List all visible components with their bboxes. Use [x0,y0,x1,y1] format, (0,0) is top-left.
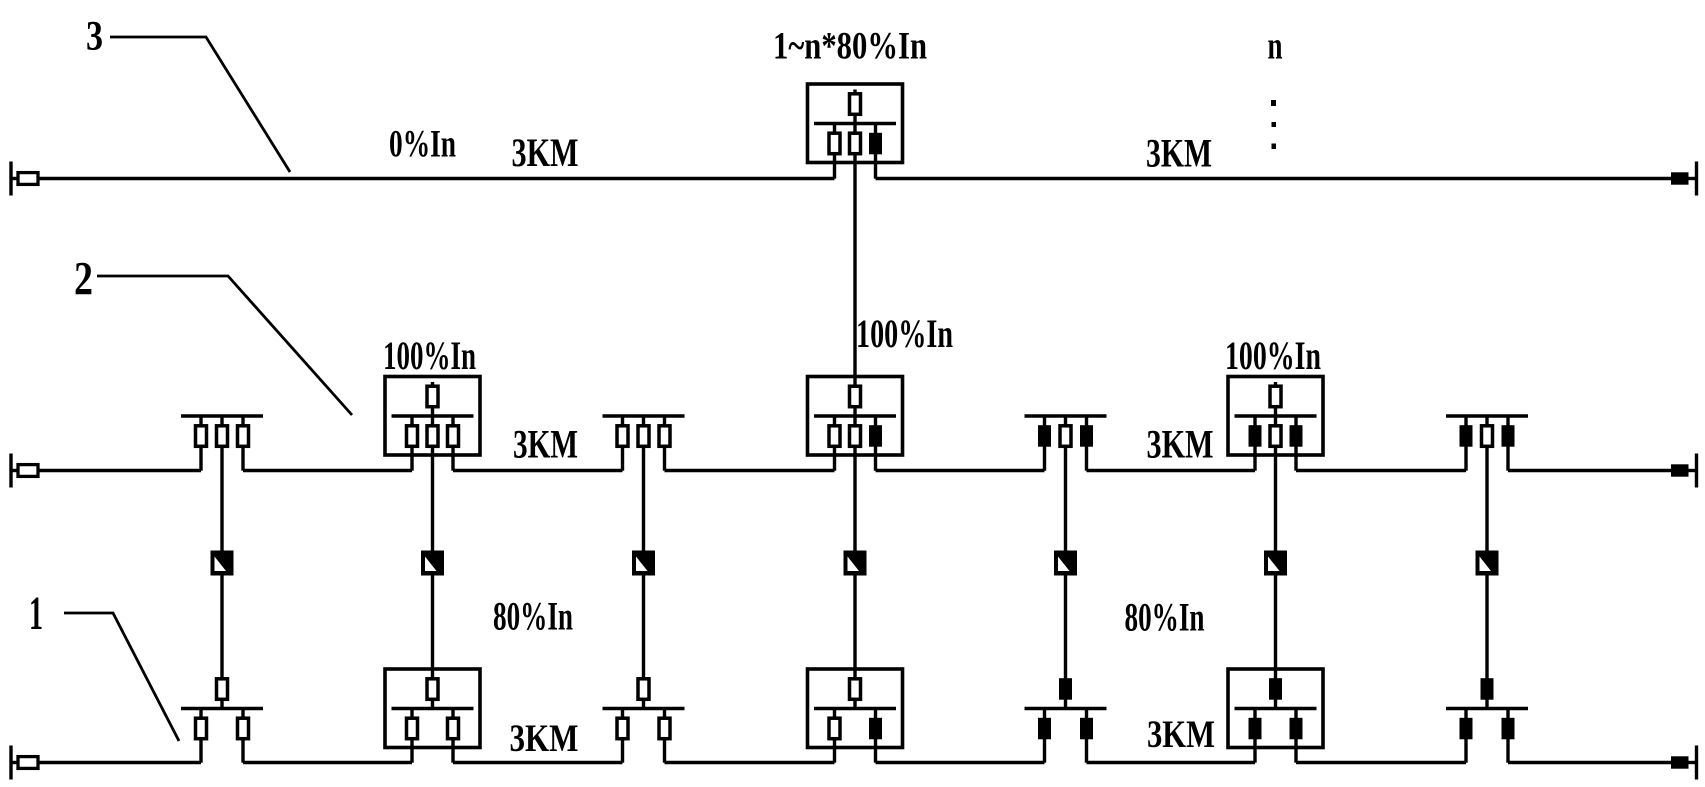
wire: line-1 unit C6 left leg upper [1253,709,1256,719]
wire: tap unit C7 (line 2) right leg to bus [1506,446,1509,471]
fuse F2-C3L (hollow) [617,426,628,447]
service box DC6 (line 1) outline [1228,669,1323,748]
wire: line-1 unit C7 left leg upper [1464,709,1467,719]
wire: tap unit C3 (line 2) centre leg upper [642,416,645,426]
wire: line-1 unit C3 right leg upper [663,709,666,719]
wire: box BC6 right leg upper [1294,416,1297,426]
wire: tap unit C7 (line 2) left leg upper [1464,416,1467,426]
svg-text:3KM: 3KM [1147,713,1215,756]
busbar of tap unit C7 (line 2) [1446,414,1528,418]
fuse F1-C2R (hollow) [448,718,459,739]
fuse F1-C7R (solid) [1502,718,1515,740]
fuse F2-C6L (solid) [1249,425,1262,447]
terminal stub wire (line 2 right) [1689,469,1696,472]
fuse F1-C7L (solid) [1460,718,1473,740]
terminal bar (left end, line 1) [9,746,12,780]
terminal connector (right end, line 1) [1671,756,1689,768]
fuse B3T (hollow) [850,94,861,115]
busbar of line-1 unit C1 [181,707,263,711]
terminal bar (left end, line 2) [9,454,12,488]
fuse F2-C3R (hollow) [659,426,670,447]
wire: drop from meter M4 to line-1 unit [853,574,856,680]
wire: feeder line 3, right span [876,177,1672,181]
wire: fuse F2-C2T to busbar [431,407,434,417]
terminal connector (left end, line 2) [18,465,38,477]
wire: line-1 unit C6 left leg to bus [1253,739,1256,763]
terminal stub wire (line 1 right) [1689,761,1696,764]
wire: box BC2 right leg upper [451,416,454,426]
fuse F2-C2C (hollow) [427,426,438,447]
busbar of line-1 unit C2 [392,707,474,711]
wire: fuse to busbar in line-1 unit C4 [853,699,856,709]
wire: line-1 unit C1 right leg to bus [241,739,244,763]
busbar of tap unit C1 (line 2) [181,414,263,418]
fuse F2-C5C (hollow) [1060,426,1071,447]
svg-text:80%In: 80%In [493,594,573,639]
terminal bar (right end, line 2) [1695,454,1698,488]
terminal connector (left end, feeder line 3) [18,173,38,185]
wire: line-1 unit C2 right leg to bus [451,739,454,763]
fuse F2-C4L (hollow) [829,426,840,447]
wire: drop from meter M7 to line-1 unit [1485,574,1488,680]
wire: line-1 unit C4 left leg upper [833,709,836,719]
terminal bar (right end, feeder line 3) [1695,162,1698,196]
busbar of line-1 unit C4 [814,707,896,711]
busbar of box BC2 [392,414,474,418]
wire: drop from meter M6 to line-1 unit [1274,574,1277,680]
wire: line 1 span 5 [876,761,1045,765]
meter M3 [632,551,655,576]
busbar of line-1 unit C3 [603,707,685,711]
wire: fuse to busbar in line-1 unit C7 [1485,699,1488,709]
terminal bar (left end, feeder line 3) [9,162,12,196]
leader line for label 1 [64,613,179,741]
svg-text:3KM: 3KM [513,422,578,467]
svg-text:0%In: 0%In [389,123,456,166]
fuse F1-C3L (hollow) [617,718,628,739]
wire: line-1 unit C7 right leg to bus [1506,739,1509,763]
busbar of tap unit C5 (line 2) [1025,414,1107,418]
wire: box BC2 left leg to bus [410,446,413,471]
wire: tap unit C3 (line 2) right leg to bus [663,446,666,471]
svg-text:3: 3 [86,14,103,60]
wire: feeder line 3, left span [38,177,835,181]
wire: tap unit C1 (line 2) right leg upper [241,416,244,426]
meter M4 [844,551,867,576]
wire: tap box B3 centre leg upper [853,124,856,134]
fuse F1-C2T (hollow) [427,679,438,700]
wire: line 2 span 7 [1296,469,1466,473]
fuse F2-C7R (solid) [1502,425,1515,447]
busbar of tap unit C3 (line 2) [603,414,685,418]
terminal stub wire (line 2 left) [11,469,18,472]
wire: fuse to busbar in line-1 unit C2 [431,699,434,709]
fuse F1-C5T (solid) [1059,678,1072,700]
distribution box BC4 (line 2) outline [808,377,903,456]
wire: box BC2 left leg upper [410,416,413,426]
wire: tap unit C7 (line 2) centre leg upper [1485,416,1488,426]
wire: line-1 unit C2 left leg to bus [410,739,413,763]
wire: box BC2 right leg to bus [451,446,454,471]
wire: tap box B3 left leg to bus [833,154,836,179]
wire: drop from meter M2 to line-1 unit [431,574,434,680]
wire: tap unit C5 (line 2) right leg to bus [1085,446,1088,471]
svg-text:n: n [1268,25,1283,68]
wire: box BC6 left leg upper [1253,416,1256,426]
service box DC2 (line 1) outline [385,669,480,748]
wire: line-1 unit C2 left leg upper [410,709,413,719]
distribution box BC2 (line 2) outline [385,377,480,456]
terminal connector (right end, line 2) [1671,464,1689,476]
busbar of box BC6 [1235,414,1317,418]
terminal stub wire (feeder line 3 right) [1689,177,1696,180]
wire: drop from line-2 unit C6 to meter [1274,446,1277,553]
fuse F1-C5L (solid) [1038,718,1051,740]
wire: line-1 unit C4 right leg upper [874,709,877,719]
wire: drop from meter M3 to line-1 unit [642,574,645,680]
wire: line 2 span 4 [665,469,835,473]
meter M1 [211,551,234,576]
fuse F2-C1R (hollow) [238,426,249,447]
wire: line 2 span 1 [38,469,201,473]
svg-text:3KM: 3KM [1146,131,1212,176]
wire: box BC4 right leg upper [874,416,877,426]
wire: stub above fuse F2-C6T [1274,382,1277,387]
terminal stub wire (feeder line 3 left) [11,177,18,180]
wire: line 2 span 6 [1087,469,1256,473]
fuse F2-C1C (hollow) [217,426,228,447]
fuse F2-C2L (hollow) [407,426,418,447]
fuse F2-C6T (hollow) [1270,386,1281,407]
fuse F1-C3T (hollow) [638,679,649,700]
fuse F2-C6R (solid) [1290,425,1303,447]
wire: box BC6 centre leg upper [1274,416,1277,426]
wire: line-1 unit C5 right leg upper [1085,709,1088,719]
wire: fuse to busbar in BC4 [853,407,856,417]
service box DC4 (line 1) outline [808,669,903,748]
wire: drop from line-2 unit C5 to meter [1064,446,1067,553]
fuse F1-C2L (hollow) [407,718,418,739]
wire: line-1 unit C1 right leg upper [241,709,244,719]
wire: line-1 unit C4 left leg to bus [833,739,836,763]
ellipsis dot 3 [1272,144,1277,150]
wire: tap box B3 right leg upper [874,124,877,134]
wire: drop from line-2 unit C3 to meter [642,446,645,553]
terminal stub wire (line 1 left) [11,761,18,764]
wire: line-1 unit C6 right leg to bus [1294,739,1297,763]
fuse F2-C3C (hollow) [638,426,649,447]
wire: tap unit C1 (line 2) left leg upper [199,416,202,426]
fuse F1-C5R (solid) [1080,718,1093,740]
fuse F2-C5L (solid) [1038,425,1051,447]
distribution box BC6 (line 2) outline [1228,377,1323,456]
wire: line 2 span 3 [453,469,623,473]
wire: tap unit C5 (line 2) left leg upper [1043,416,1046,426]
wire: line 1 span 6 [1087,761,1256,765]
fuse F3C (hollow) [850,133,861,154]
wire: box BC6 left leg to bus [1253,446,1256,471]
fuse F1-C7T (solid) [1481,678,1494,700]
meter M5 [1054,551,1077,576]
tap box B3 (line 3) outline [808,84,903,163]
wire: box BC4 right leg to bus [874,446,877,471]
wire: line 2 span 8 [1508,469,1671,473]
wire: tap box B3 left leg upper [833,124,836,134]
wire: fuse to busbar in line-1 unit C3 [642,699,645,709]
fuse F2-C4T (hollow) [850,386,861,407]
wire: line 1 span 3 [453,761,623,765]
wire: line 2 span 2 [243,469,412,473]
terminal bar (right end, line 1) [1695,746,1698,780]
wire: line-1 unit C7 left leg to bus [1464,739,1467,763]
fuse F1-C6T (solid) [1269,678,1282,700]
svg-text:2: 2 [74,253,93,306]
fuse F2-C1L (hollow) [196,426,207,447]
wire: drop from line-2 unit C2 to meter [431,446,434,553]
svg-text:3KM: 3KM [1147,422,1214,467]
wire: line-1 unit C3 left leg to bus [621,739,624,763]
busbar of line-1 unit C7 [1446,707,1528,711]
wire: line 1 span 7 [1296,761,1466,765]
wire: drop from meter M1 to line-1 unit [220,574,223,680]
wire: fuse to busbar in line-1 unit C5 [1064,699,1067,709]
svg-text:1: 1 [29,587,43,640]
fuse F1-C6R (solid) [1290,718,1303,740]
svg-text:100%In: 100%In [856,311,953,356]
svg-text:80%In: 80%In [1125,595,1205,640]
busbar of line-1 unit C5 [1025,707,1107,711]
fuse F1-C4L (hollow) [829,718,840,739]
wire: drop from line-2 unit C7 to meter [1485,446,1488,553]
svg-text:3KM: 3KM [510,717,579,760]
ellipsis dot 1 [1271,100,1276,106]
wire: tap unit C5 (line 2) right leg upper [1085,416,1088,426]
fuse F1-C1T (hollow) [217,679,228,700]
svg-text:1~n*80%In: 1~n*80%In [773,25,927,68]
wire: box BC6 right leg to bus [1294,446,1297,471]
terminal connector (left end, line 1) [18,757,38,769]
wire: line-1 unit C2 right leg upper [451,709,454,719]
wire: tap box B3 right leg to bus [874,154,877,179]
wire: tap unit C5 (line 2) centre leg upper [1064,416,1067,426]
wire: drop from line-2 unit C4 to meter [853,446,856,553]
wire: fuse B3T to busbar [853,114,856,124]
wire: drop from meter M5 to line-1 unit [1064,574,1067,680]
fuse F1-C1R (hollow) [238,718,249,739]
fuse F3L (hollow) [829,133,840,154]
wire: box BC4 left leg to bus [833,446,836,471]
wire: line-1 unit C1 left leg to bus [199,739,202,763]
fuse F1-C3R (hollow) [659,718,670,739]
busbar of box BC4 [814,414,896,418]
fuse F2-C6C (hollow) [1270,426,1281,447]
wire: fuse F2-C6T to busbar [1274,407,1277,417]
wire: stub above fuse F2-C2T [431,382,434,387]
wire: line 1 span 8 [1508,761,1671,765]
wire: line 1 span 1 [38,761,201,765]
fuse F2-C7C (hollow) [1482,426,1493,447]
leader line for label 2 [97,276,352,415]
wire: line-1 unit C7 right leg upper [1506,709,1509,719]
wire: line 1 span 4 [665,761,835,765]
terminal connector (right end, feeder line 3) [1671,172,1689,184]
meter M2 [421,551,444,576]
wire: tap unit C1 (line 2) left leg to bus [199,446,202,471]
wire: line 2 span 5 [876,469,1045,473]
wire: box BC4 left leg upper [833,416,836,426]
wire: drop from line 3 into box BC4 [853,154,856,387]
wire: line-1 unit C5 left leg upper [1043,709,1046,719]
wire: tap unit C5 (line 2) left leg to bus [1043,446,1046,471]
busbar of tap box B3 [814,122,896,126]
wire: tap unit C1 (line 2) right leg to bus [241,446,244,471]
fuse F2-C7L (solid) [1460,425,1473,447]
ellipsis dot 2 [1272,122,1277,127]
wire: line 1 span 2 [243,761,412,765]
wire: box BC2 centre leg upper [431,416,434,426]
wire: line-1 unit C5 right leg to bus [1085,739,1088,763]
wire: tap unit C3 (line 2) right leg upper [663,416,666,426]
wire: line-1 unit C3 left leg upper [621,709,624,719]
wire: tap unit C7 (line 2) right leg upper [1506,416,1509,426]
fuse F2-C4R (solid) [869,425,882,447]
fuse F2-C5R (solid) [1080,425,1093,447]
svg-text:100%In: 100%In [383,333,476,378]
busbar of line-1 unit C6 [1235,707,1317,711]
svg-text:100%In: 100%In [1225,333,1321,378]
leader line for label 3 [110,37,290,172]
wire: fuse to busbar in line-1 unit C6 [1274,699,1277,709]
fuse F1-C6L (solid) [1249,718,1262,740]
fuse F2-C2T (hollow) [427,386,438,407]
wire: drop from line-2 unit C1 to meter [220,446,223,553]
fuse F3R (solid) [869,133,882,155]
meter M6 [1264,551,1287,576]
svg-text:3KM: 3KM [512,130,579,175]
wire: tap unit C3 (line 2) left leg to bus [621,446,624,471]
wire: line-1 unit C3 right leg to bus [663,739,666,763]
fuse F1-C1L (hollow) [196,718,207,739]
fuse F2-C4C (hollow) [850,426,861,447]
wire: line-1 unit C6 right leg upper [1294,709,1297,719]
wire: line-1 unit C5 left leg to bus [1043,739,1046,763]
wire: fuse to busbar in line-1 unit C1 [220,699,223,709]
wire: line-1 unit C4 right leg to bus [874,739,877,763]
fuse F1-C4R (solid) [869,718,882,740]
fuse F2-C2R (hollow) [448,426,459,447]
wire: tap unit C1 (line 2) centre leg upper [220,416,223,426]
wire: tap unit C7 (line 2) left leg to bus [1464,446,1467,471]
wire: box BC4 centre leg upper [853,416,856,426]
wire: line-1 unit C1 left leg upper [199,709,202,719]
meter M7 [1476,551,1499,576]
wire: tap unit C3 (line 2) left leg upper [621,416,624,426]
wire: stub above fuse B3T [853,90,856,95]
fuse F1-C4T (hollow) [850,679,861,700]
